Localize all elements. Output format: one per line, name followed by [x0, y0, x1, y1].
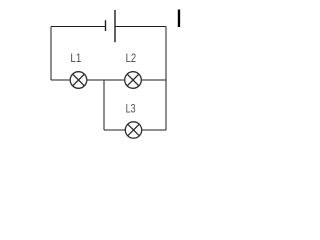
svg-text:I: I	[176, 5, 183, 33]
svg-text:L1: L1	[70, 51, 81, 65]
svg-text:L2: L2	[126, 51, 137, 65]
svg-text:L3: L3	[126, 101, 136, 115]
